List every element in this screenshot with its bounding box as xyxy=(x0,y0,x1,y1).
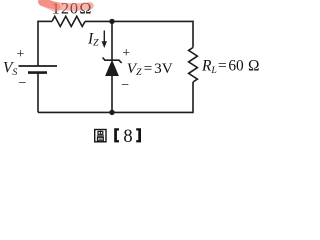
zener diode DZ cathode bar xyxy=(103,58,122,63)
caption right lenticular bracket xyxy=(136,128,141,142)
svg-text:RL=60Ω: RL=60Ω xyxy=(201,58,259,76)
wire middle branch upper xyxy=(111,21,113,60)
svg-text:+: + xyxy=(122,46,130,61)
svg-text:VS: VS xyxy=(3,60,17,78)
wire right vertical upper xyxy=(192,21,194,48)
svg-text:8: 8 xyxy=(123,127,132,147)
battery VS short plate xyxy=(28,71,47,74)
svg-text:VZ=3V: VZ=3V xyxy=(127,60,173,78)
wire left vertical lower xyxy=(37,73,39,113)
svg-text:IZ: IZ xyxy=(87,30,99,48)
battery VS long plate xyxy=(19,65,58,67)
svg-text:−: − xyxy=(19,76,27,91)
current IZ arrow xyxy=(103,31,105,43)
zener diode DZ triangle xyxy=(106,61,119,76)
wire middle branch lower xyxy=(111,76,113,113)
resistor RL zigzag xyxy=(189,48,198,83)
resistor R (120 ohm) zigzag xyxy=(52,16,85,26)
wire right vertical lower xyxy=(192,82,194,113)
caption left lenticular bracket xyxy=(114,128,119,142)
caption figure glyph (CJK tu) xyxy=(95,130,106,142)
wire bottom xyxy=(38,111,193,113)
svg-text:−: − xyxy=(121,78,129,93)
wire top-right segment xyxy=(85,20,193,22)
svg-text:+: + xyxy=(17,47,25,62)
node junction dot bottom xyxy=(109,110,114,115)
wire left vertical upper xyxy=(37,21,39,66)
node junction dot top xyxy=(109,19,114,24)
wire top-left segment xyxy=(38,20,52,22)
highlight marker stroke over 120 ohm xyxy=(42,2,90,7)
